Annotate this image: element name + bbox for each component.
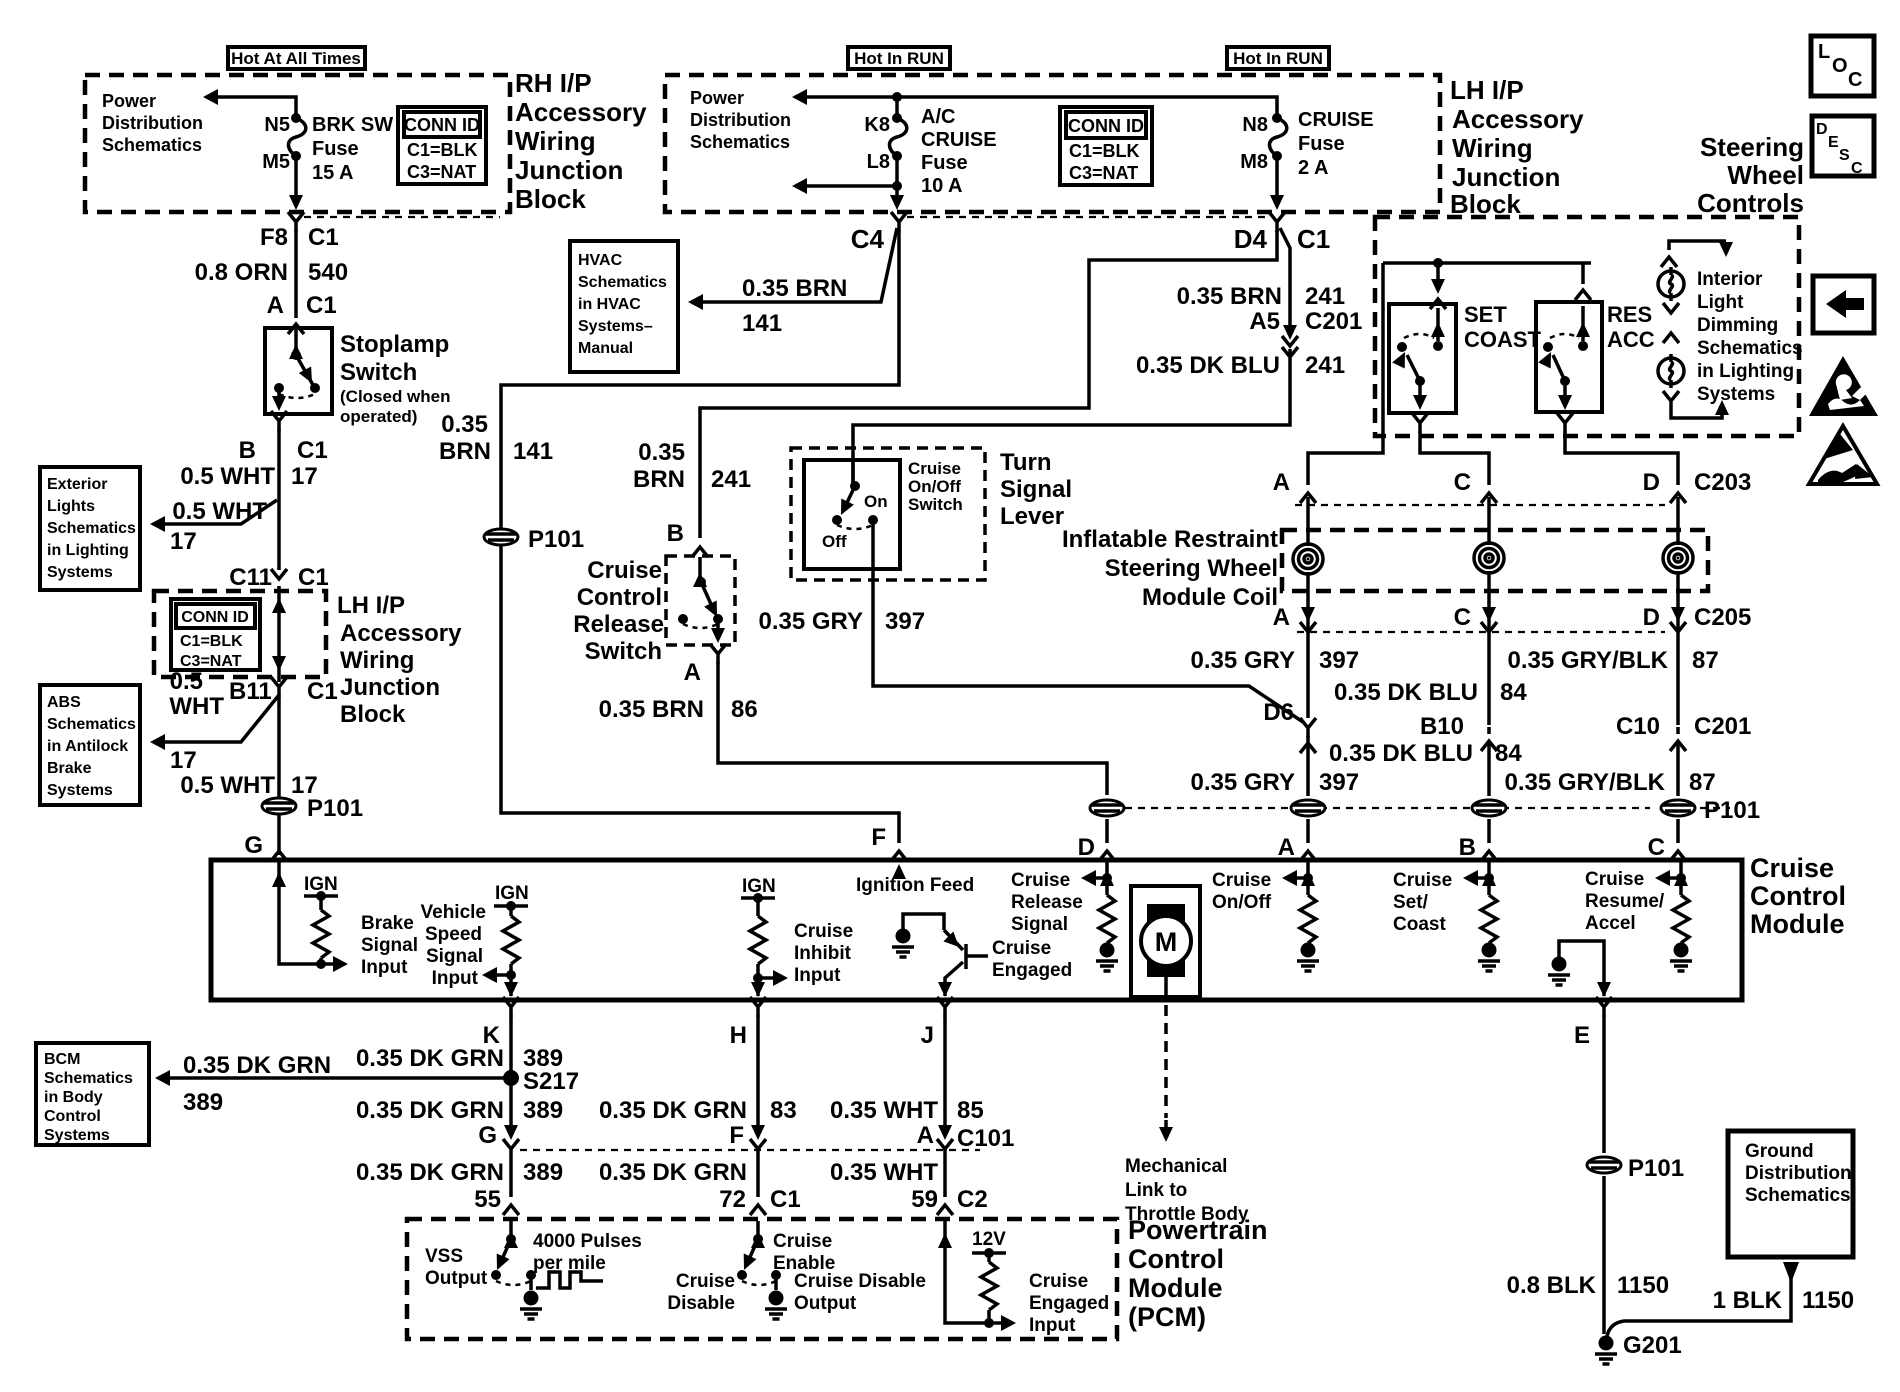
coil C [1474, 543, 1504, 573]
svg-text:C: C [1848, 69, 1862, 91]
branch: 0.35 BRN 141 arrow to HVAC [691, 228, 897, 302]
branch arrow to Exterior Lights [153, 500, 277, 524]
svg-text:0.35 DK GRN: 0.35 DK GRN [356, 1097, 504, 1124]
svg-text:G: G [478, 1122, 497, 1149]
D pin / cruise release resistor [1085, 862, 1107, 895]
svg-text:72: 72 [719, 1186, 746, 1213]
svg-text:Cruise: Cruise [1585, 869, 1644, 890]
svg-text:17: 17 [170, 528, 197, 555]
svg-text:241: 241 [1305, 352, 1345, 379]
svg-text:LH I/P: LH I/P [1450, 75, 1524, 105]
svg-text:0.5 WHT: 0.5 WHT [180, 463, 275, 490]
svg-text:CRUISE: CRUISE [1298, 109, 1374, 131]
svg-text:Cruise: Cruise [992, 938, 1051, 959]
svg-text:0.5 WHT: 0.5 WHT [180, 772, 275, 799]
ground G201 [1595, 1336, 1617, 1365]
svg-text:2 A: 2 A [1298, 157, 1328, 179]
svg-text:87: 87 [1692, 647, 1719, 674]
svg-text:D6: D6 [1263, 699, 1294, 726]
svg-text:J: J [921, 1022, 934, 1049]
svg-text:WHT: WHT [169, 693, 224, 720]
svg-text:F: F [871, 824, 886, 851]
F pin / ignition feed [892, 864, 906, 879]
svg-text:0.35 DK GRN: 0.35 DK GRN [356, 1045, 504, 1072]
svg-text:Dimming: Dimming [1697, 315, 1778, 336]
wire 0.35 BRN 86 to module D [718, 662, 1107, 795]
svg-text:Power: Power [690, 88, 744, 108]
CONN ID box (middle) [1060, 107, 1152, 185]
svg-text:0.8 BLK: 0.8 BLK [1507, 1272, 1597, 1299]
svg-text:A5: A5 [1249, 308, 1280, 335]
svg-text:E: E [1574, 1022, 1590, 1049]
svg-text:0.35 GRY/BLK: 0.35 GRY/BLK [1508, 647, 1669, 674]
wire: L8 down with branch arrow left [795, 156, 897, 205]
svg-text:Controls: Controls [1697, 188, 1804, 218]
svg-text:C1: C1 [1297, 224, 1330, 254]
BCM Schematics box [36, 1043, 149, 1145]
svg-text:Schematics: Schematics [578, 274, 667, 291]
svg-text:Systems–: Systems– [578, 318, 653, 335]
svg-text:389: 389 [523, 1159, 563, 1186]
svg-text:F: F [729, 1122, 744, 1149]
node D4/C1 [1269, 212, 1285, 232]
connector row C205 [1301, 607, 1315, 622]
svg-text:Power: Power [102, 91, 156, 111]
svg-text:CONN ID: CONN ID [181, 609, 249, 626]
svg-text:Inhibit: Inhibit [794, 943, 852, 964]
svg-text:ABS: ABS [47, 694, 81, 711]
wire: 241 down and left to On/Off switch [853, 349, 1290, 484]
fuse CRUISE 2 A [1269, 113, 1286, 161]
svg-text:(PCM): (PCM) [1128, 1302, 1206, 1332]
svg-text:(Closed when: (Closed when [340, 387, 451, 406]
svg-text:C: C [1648, 834, 1665, 861]
svg-text:241: 241 [1305, 283, 1345, 310]
svg-text:Control: Control [44, 1108, 101, 1125]
svg-text:Link to: Link to [1125, 1180, 1187, 1201]
svg-text:Engaged: Engaged [1029, 1293, 1109, 1314]
svg-text:0.35 DK GRN: 0.35 DK GRN [599, 1097, 747, 1124]
svg-text:Signal: Signal [361, 935, 418, 956]
svg-text:Systems: Systems [44, 1127, 110, 1144]
svg-text:1 BLK: 1 BLK [1713, 1287, 1783, 1314]
svg-text:D: D [1643, 604, 1660, 631]
svg-text:Wiring: Wiring [515, 126, 596, 156]
svg-text:On/Off: On/Off [908, 477, 961, 496]
svg-text:0.35 DK GRN: 0.35 DK GRN [356, 1159, 504, 1186]
svg-text:17: 17 [170, 747, 197, 774]
resume/accel resistor [1659, 862, 1681, 895]
warning triangle (outline, ESD hand) [1809, 426, 1877, 484]
svg-text:IGN: IGN [495, 883, 529, 904]
svg-text:BRN: BRN [633, 466, 685, 493]
svg-text:Schematics: Schematics [690, 132, 790, 152]
svg-text:Schematics: Schematics [1697, 338, 1803, 359]
svg-text:141: 141 [513, 438, 553, 465]
svg-text:0.35 GRY/BLK: 0.35 GRY/BLK [1505, 769, 1666, 796]
svg-text:A: A [267, 292, 284, 319]
svg-text:12V: 12V [972, 1229, 1006, 1250]
svg-text:O: O [1832, 55, 1848, 77]
svg-text:C201: C201 [1694, 713, 1751, 740]
svg-text:C205: C205 [1694, 604, 1751, 631]
svg-text:397: 397 [1319, 647, 1359, 674]
mechanical link dashed wire [1164, 1005, 1168, 1118]
wire 0.5 WHT 17 down to C11 [277, 429, 281, 570]
svg-text:B: B [667, 520, 684, 547]
svg-text:P101: P101 [1704, 797, 1760, 824]
svg-text:Schematics: Schematics [1745, 1185, 1851, 1206]
ground (VSS) [520, 1291, 542, 1320]
node C4 [891, 212, 907, 232]
svg-text:D: D [1078, 834, 1095, 861]
svg-text:A: A [917, 1122, 934, 1149]
svg-text:C10: C10 [1616, 713, 1660, 740]
svg-text:N5: N5 [264, 114, 290, 136]
svg-text:G: G [244, 832, 263, 859]
svg-text:0.5 WHT: 0.5 WHT [172, 498, 267, 525]
svg-text:Module Coil: Module Coil [1142, 584, 1278, 611]
svg-text:Cruise: Cruise [1212, 870, 1271, 891]
svg-text:84: 84 [1495, 740, 1522, 767]
svg-text:Cruise: Cruise [1011, 870, 1070, 891]
svg-text:Schematics: Schematics [47, 716, 136, 733]
svg-text:On/Off: On/Off [1212, 892, 1272, 913]
svg-text:Control: Control [1750, 881, 1846, 911]
svg-text:Manual: Manual [578, 340, 633, 357]
svg-text:P101: P101 [1628, 1155, 1684, 1182]
svg-text:S217: S217 [523, 1068, 579, 1095]
node B/C1 [271, 411, 287, 431]
svg-text:On: On [864, 492, 888, 511]
svg-text:Distribution: Distribution [102, 113, 203, 133]
SET/COAST switch [1389, 304, 1456, 413]
svg-text:0.35 DK BLU: 0.35 DK BLU [1329, 740, 1473, 767]
svg-text:1150: 1150 [1617, 1272, 1669, 1299]
svg-text:BRN: BRN [439, 438, 491, 465]
svg-text:0.35 GRY: 0.35 GRY [759, 608, 864, 635]
interior lamp 2 [1658, 354, 1684, 388]
svg-text:Lever: Lever [1000, 503, 1064, 530]
Exterior Lights Schematics box [40, 467, 140, 590]
svg-text:Cruise: Cruise [773, 1231, 832, 1252]
connector P101 (left) [262, 798, 296, 814]
svg-text:M5: M5 [262, 151, 290, 173]
svg-text:Accessory: Accessory [1452, 104, 1584, 134]
LH I/P accessory junction block (lower) [154, 591, 326, 677]
coil A [1293, 544, 1323, 574]
turn signal lever dashed box [791, 448, 985, 580]
svg-text:Systems: Systems [47, 564, 113, 581]
svg-text:C1: C1 [307, 678, 338, 705]
svg-text:Cruise: Cruise [587, 557, 662, 584]
set/coast resistor [1467, 862, 1489, 895]
cruise control module box [211, 860, 1742, 1000]
svg-text:M: M [1155, 927, 1178, 957]
svg-text:0.35 GRY: 0.35 GRY [1191, 769, 1296, 796]
svg-text:Input: Input [1029, 1315, 1076, 1336]
cruise on/off switch box [804, 460, 900, 569]
svg-text:0.35 DK GRN: 0.35 DK GRN [183, 1052, 331, 1079]
svg-text:0.35 WHT: 0.35 WHT [830, 1159, 938, 1186]
svg-text:Inflatable Restraint: Inflatable Restraint [1062, 526, 1278, 553]
connector row P101 [1125, 807, 1730, 809]
svg-text:Signal: Signal [1000, 476, 1072, 503]
wire 0.35 GRY 397 from On contact to D6 [873, 522, 1303, 722]
svg-text:Fuse: Fuse [921, 152, 968, 174]
svg-text:E: E [1828, 134, 1839, 151]
svg-text:0.5: 0.5 [170, 668, 203, 695]
svg-text:M8: M8 [1240, 151, 1268, 173]
svg-text:Brake: Brake [47, 760, 92, 777]
svg-text:1150: 1150 [1802, 1287, 1854, 1314]
svg-text:397: 397 [1319, 769, 1359, 796]
svg-text:SET: SET [1464, 302, 1507, 327]
svg-text:Hot In RUN: Hot In RUN [1233, 49, 1323, 68]
svg-text:Schematics: Schematics [47, 520, 136, 537]
svg-text:H: H [730, 1022, 747, 1049]
svg-text:15 A: 15 A [312, 162, 354, 184]
svg-text:VSS: VSS [425, 1246, 463, 1267]
svg-text:Accel: Accel [1585, 913, 1636, 934]
svg-text:Block: Block [340, 701, 406, 728]
svg-text:Cruise: Cruise [1393, 870, 1452, 891]
svg-text:operated): operated) [340, 407, 417, 426]
svg-text:Fuse: Fuse [312, 138, 359, 160]
svg-text:L: L [1818, 41, 1830, 63]
svg-text:Junction: Junction [515, 155, 623, 185]
svg-text:Module: Module [1750, 909, 1845, 939]
svg-text:Engaged: Engaged [992, 960, 1072, 981]
wire: RES/ACC output to D/C203 [1557, 413, 1573, 433]
svg-text:Fuse: Fuse [1298, 133, 1345, 155]
svg-text:Switch: Switch [908, 495, 963, 514]
wire: fuse M5 down out of block [294, 156, 298, 205]
svg-text:17: 17 [291, 463, 318, 490]
cruise control release switch [666, 556, 735, 645]
svg-text:Wiring: Wiring [1452, 133, 1533, 163]
connector row C203 [1300, 493, 1316, 503]
node F8/C1 connector [288, 212, 304, 232]
svg-text:BCM: BCM [44, 1051, 80, 1068]
svg-text:Signal: Signal [426, 946, 483, 967]
svg-text:C: C [1851, 160, 1863, 177]
svg-text:Mechanical: Mechanical [1125, 1156, 1227, 1177]
svg-text:Interior: Interior [1697, 269, 1763, 290]
svg-text:Input: Input [361, 957, 408, 978]
svg-text:BRK SW: BRK SW [312, 114, 393, 136]
svg-text:Switch: Switch [585, 638, 662, 665]
connector A5/C201 [1283, 325, 1297, 340]
svg-text:Coast: Coast [1393, 914, 1446, 935]
wire 0.8 BLK 1150 to G201 [1602, 1176, 1606, 1334]
DESC icon box [1812, 116, 1874, 176]
wire: N5 feed to power distribution (arrow left) [208, 97, 296, 118]
svg-text:CONN ID: CONN ID [1068, 116, 1144, 136]
fuse BRK SW 15 A [288, 113, 305, 161]
svg-text:F8: F8 [260, 224, 288, 251]
svg-text:Exterior: Exterior [47, 476, 107, 493]
svg-text:C4: C4 [851, 224, 885, 254]
top middle dashed junction box [665, 75, 1440, 212]
svg-text:0.8 ORN: 0.8 ORN [195, 259, 288, 286]
svg-text:HVAC: HVAC [578, 252, 623, 269]
inflatable restraint coil dashed box [1282, 530, 1708, 591]
svg-text:Junction: Junction [340, 674, 440, 701]
VSS output switch [509, 1221, 513, 1235]
svg-text:86: 86 [731, 696, 758, 723]
svg-text:Steering: Steering [1700, 132, 1804, 162]
svg-text:Signal: Signal [1011, 914, 1068, 935]
cruise enable switch [756, 1221, 760, 1235]
svg-text:N8: N8 [1242, 114, 1268, 136]
svg-text:Output: Output [425, 1268, 488, 1289]
transistor cruise engaged [903, 914, 944, 935]
svg-text:Steering Wheel: Steering Wheel [1105, 555, 1278, 582]
E pin ground hook [1559, 941, 1604, 996]
svg-text:P101: P101 [307, 795, 363, 822]
svg-text:in HVAC: in HVAC [578, 296, 641, 313]
svg-text:C1=BLK: C1=BLK [407, 140, 478, 160]
svg-text:Brake: Brake [361, 913, 414, 934]
svg-text:Off: Off [822, 532, 847, 551]
svg-text:83: 83 [770, 1097, 797, 1124]
svg-text:Accessory: Accessory [515, 97, 647, 127]
wire: M8 down out of block [1275, 156, 1279, 205]
lamp connector pair [1663, 303, 1679, 313]
pulse waveform [531, 1272, 603, 1290]
steering wheel controls dashed box [1375, 217, 1799, 436]
svg-text:Vehicle: Vehicle [421, 902, 487, 923]
svg-text:C1: C1 [308, 224, 339, 251]
12V cruise engaged input [945, 1221, 1010, 1323]
G pin entry [279, 862, 340, 964]
svg-text:B: B [1459, 834, 1476, 861]
svg-text:G201: G201 [1623, 1332, 1682, 1359]
svg-text:ACC: ACC [1607, 327, 1655, 352]
wire: C4 down, across to P101, down, across to F [501, 230, 899, 843]
svg-text:10 A: 10 A [921, 175, 963, 197]
splice S217 arrow to BCM [503, 1070, 519, 1086]
svg-text:Cruise: Cruise [794, 921, 853, 942]
svg-text:Light: Light [1697, 292, 1744, 313]
svg-text:Input: Input [794, 965, 841, 986]
Hot In RUN label box (left) [848, 47, 950, 69]
wire: D4 stem to release-switch feed line [700, 230, 1277, 538]
stoplamp switch [265, 328, 332, 414]
interior lamp 1 [1658, 267, 1684, 301]
svg-text:389: 389 [183, 1089, 223, 1116]
feed wire across switch tops [1383, 261, 1591, 265]
coil D [1663, 543, 1693, 573]
svg-text:K8: K8 [864, 114, 890, 136]
svg-text:Cruise: Cruise [1750, 853, 1834, 883]
svg-text:4000 Pulses: 4000 Pulses [533, 1231, 642, 1252]
svg-text:B11: B11 [229, 678, 272, 705]
svg-text:Hot In RUN: Hot In RUN [854, 49, 944, 68]
svg-text:C1=BLK: C1=BLK [1069, 141, 1140, 161]
ground (ignition feed) [892, 929, 914, 958]
svg-text:D: D [1643, 469, 1660, 496]
svg-text:0.35: 0.35 [638, 439, 685, 466]
svg-text:Schematics: Schematics [44, 1070, 133, 1087]
svg-text:Cruise: Cruise [676, 1271, 735, 1292]
svg-text:Stoplamp: Stoplamp [340, 331, 449, 358]
svg-text:540: 540 [308, 259, 348, 286]
svg-text:0.35 BRN: 0.35 BRN [742, 275, 847, 302]
svg-text:in Body: in Body [44, 1089, 103, 1106]
svg-text:C1: C1 [770, 1186, 801, 1213]
svg-text:Cruise: Cruise [908, 459, 961, 478]
fuse A/C CRUISE 10 A [895, 97, 899, 118]
svg-text:84: 84 [1500, 679, 1527, 706]
svg-text:D4: D4 [1234, 224, 1268, 254]
svg-text:Hot At All Times: Hot At All Times [231, 49, 361, 68]
svg-text:C1=BLK: C1=BLK [180, 633, 243, 650]
branch arrow to ABS [153, 695, 279, 742]
svg-text:0.35 WHT: 0.35 WHT [830, 1097, 938, 1124]
svg-text:Control: Control [577, 584, 662, 611]
svg-text:B10: B10 [1420, 713, 1464, 740]
LOC icon box [1811, 36, 1874, 96]
svg-text:Speed: Speed [425, 924, 482, 945]
svg-text:Systems: Systems [1697, 384, 1775, 405]
node B11/C1 [271, 677, 287, 697]
svg-text:C3=NAT: C3=NAT [1069, 163, 1138, 183]
svg-text:Switch: Switch [340, 359, 417, 386]
svg-text:S: S [1839, 147, 1850, 164]
svg-text:Ignition Feed: Ignition Feed [856, 875, 974, 896]
svg-text:B: B [239, 437, 256, 464]
svg-text:Ground: Ground [1745, 1141, 1814, 1162]
ABS Schematics box [40, 685, 140, 805]
svg-text:LH I/P: LH I/P [337, 592, 405, 619]
wire: bus from arrow to N8 [795, 97, 1277, 118]
svg-text:A: A [1273, 604, 1290, 631]
svg-text:Cruise Disable: Cruise Disable [794, 1271, 926, 1292]
wire 0.8 ORN 540 [294, 230, 298, 318]
svg-text:Output: Output [794, 1293, 857, 1314]
svg-text:C: C [1454, 604, 1471, 631]
svg-text:L8: L8 [867, 151, 890, 173]
svg-text:397: 397 [885, 608, 925, 635]
svg-text:A: A [1273, 469, 1290, 496]
RES/ACC switch [1536, 302, 1602, 412]
CONN ID box (RH) [398, 107, 486, 184]
svg-text:Schematics: Schematics [102, 135, 202, 155]
svg-text:0.35 DK BLU: 0.35 DK BLU [1334, 679, 1478, 706]
svg-text:RH I/P: RH I/P [515, 68, 592, 98]
svg-text:C201: C201 [1305, 308, 1362, 335]
svg-text:Junction: Junction [1452, 162, 1560, 192]
svg-text:C101: C101 [957, 1125, 1014, 1152]
svg-text:141: 141 [742, 310, 782, 337]
svg-text:A: A [1278, 834, 1295, 861]
svg-text:RES: RES [1607, 302, 1652, 327]
svg-text:Throttle Body: Throttle Body [1125, 1204, 1249, 1225]
svg-text:in Lighting: in Lighting [47, 542, 129, 559]
svg-text:Accessory: Accessory [340, 620, 462, 647]
B pin / cruise on-off resistor [1286, 862, 1308, 895]
svg-text:Release: Release [1011, 892, 1083, 913]
connector P101 (on BRN 141 wire) [484, 529, 518, 545]
wires down to P101 row [1306, 736, 1310, 843]
svg-text:0.35: 0.35 [441, 411, 488, 438]
wire 0.35 DK GRN 389 with S217 splice [509, 1015, 513, 1133]
svg-text:in Lighting: in Lighting [1697, 361, 1794, 382]
wire 0.5 WHT 17 to P101 [277, 695, 281, 855]
RH I/P dashed junction block box [85, 75, 510, 212]
